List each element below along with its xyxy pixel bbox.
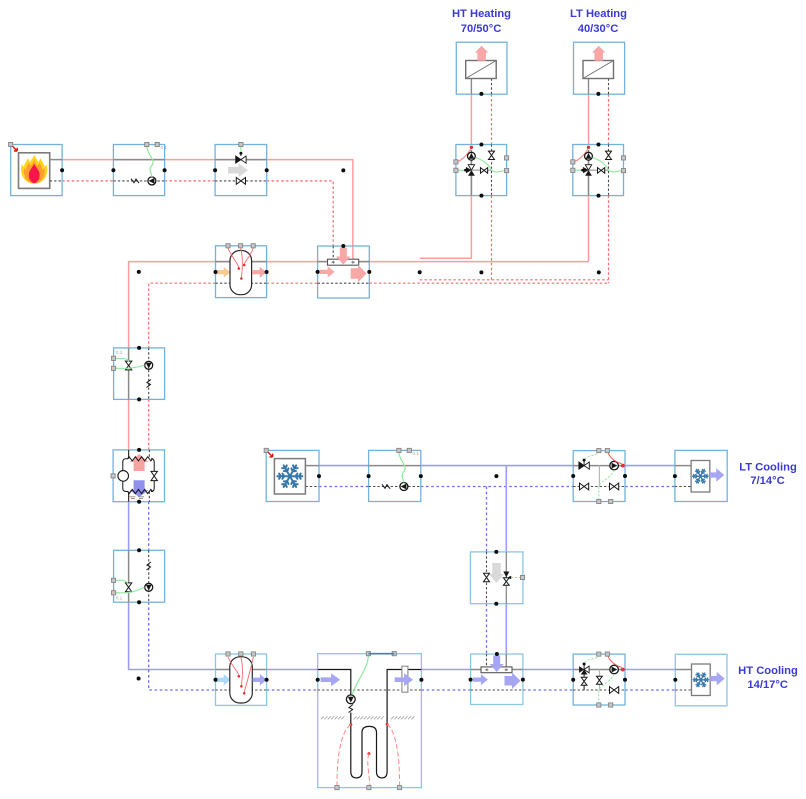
pump P4 (chiller circuit) (400, 483, 408, 491)
wire bottom return bus y=690 b (421, 689, 470, 691)
buffer tank 1 vessel (230, 251, 252, 295)
wire bottom return bus y=690 d (625, 689, 675, 691)
node HT branch tee (479, 270, 483, 274)
node buffer1 left (214, 270, 218, 274)
LT radiator heat arrow (592, 46, 606, 61)
wire boiler return dashed red seg3 (267, 181, 334, 246)
node HT load left (673, 678, 677, 682)
node bottom-left corner (137, 677, 141, 681)
wire bottom supply bus y=669.5 (267, 669, 318, 671)
wire cooling tie return lower (486, 604, 488, 654)
control terminals boiler pump (145, 142, 149, 146)
cooling tie block frame (470, 552, 523, 604)
chiller block frame (266, 450, 319, 501)
wire LT cooling return y=486.5 (dashed) (319, 486, 369, 488)
borefield temperature probes (349, 723, 352, 726)
svg-text:0.1: 0.1 (116, 350, 123, 355)
HT cooling load frame (675, 654, 727, 706)
HP cold-side terminals (112, 578, 116, 582)
HT heating circuit block frame (456, 145, 507, 196)
chiller circuit flow resistance (382, 484, 390, 488)
wire LT supply riser x=588.5 (588, 196, 590, 262)
HT radiator block frame (456, 42, 507, 94)
HP hot-side green leads (115, 358, 129, 362)
LT radiator emitter (583, 61, 614, 79)
node HT heating circuit bottom (479, 194, 483, 198)
manifold small outflow arrow (320, 266, 335, 277)
cold manifold inlet arrow (490, 656, 504, 673)
boiler return stub dashed (50, 180, 62, 182)
boiler block frame (11, 145, 62, 196)
wire return bus y=283.2 seg2 (267, 282, 318, 284)
boiler selection marker (9, 142, 13, 146)
boiler pump block frame (113, 145, 164, 196)
wire HP cold supply corner (129, 602, 216, 669)
LT cooling valve block pump (610, 461, 619, 470)
heat pump condenser arrow (130, 454, 149, 471)
svg-text:LT Cooling: LT Cooling (739, 462, 797, 474)
cold manifold block frame (471, 654, 523, 705)
cold manifold big outflow arrow (505, 673, 521, 690)
node heat pump top (137, 448, 141, 452)
node LT load left (673, 474, 677, 478)
node LT radiator bottom (596, 92, 600, 96)
node LT cooling valve block right (623, 474, 627, 478)
HT cooling valve block mid connecting pipe (598, 670, 600, 691)
LT heating terminals (571, 160, 575, 164)
LT cooling load pipes (675, 465, 691, 467)
node supply-bus split (418, 270, 422, 274)
green control lead P4 (399, 452, 405, 483)
borefield inlet arrow (321, 673, 341, 686)
heat pump condenser coil (123, 457, 154, 472)
LT cooling valve block return balancing valve A (580, 483, 589, 490)
node boiler-main corner (341, 168, 345, 172)
LT cooling valve block terminals (597, 449, 601, 453)
LT cooling valve block green control curves (585, 451, 599, 459)
wire boiler return dashed red seg1 (62, 180, 113, 182)
node cooling tie top (494, 550, 498, 554)
manifold riser stubs (332, 246, 334, 260)
boiler valve block frame (215, 145, 267, 196)
svg-text:HT Cooling: HT Cooling (738, 665, 798, 677)
node chiller pump right (419, 474, 423, 478)
cold manifold riser stubs (486, 654, 488, 667)
svg-text:7/14°C: 7/14°C (750, 475, 784, 487)
borefield block frame (318, 654, 422, 788)
wire HT radiator supply x=471.4 (470, 94, 472, 144)
LT heating valve actuator dot (581, 169, 584, 172)
chiller pipe stubs (305, 465, 319, 467)
LT cooling valve block return balancing valve B (610, 483, 619, 490)
HP hot-side terminals (112, 356, 116, 360)
LT cooling load arrow (710, 468, 725, 482)
wire return bus y=283.2 seg1 (149, 283, 216, 348)
LT radiator pipes (588, 79, 590, 95)
HT cooling valve block valve branch pipe (583, 675, 585, 691)
svg-text:14/17°C: 14/17°C (747, 679, 788, 691)
chiller housing (274, 459, 305, 494)
wire LT return dropper x=608.5 (608, 196, 610, 284)
buffer tank 1 outlet arrow (252, 267, 266, 278)
HT heating return balancing valve (489, 151, 495, 159)
borefield terminals (366, 652, 370, 656)
control valve V1 (236, 156, 241, 163)
HT cooling valve block three-way valve (579, 666, 584, 673)
node cooling tie junction (494, 474, 498, 478)
HP cold-side pipes (128, 550, 130, 602)
node borefield right (419, 678, 423, 682)
LT cooling valve block frame (573, 451, 625, 502)
boiler inner housing (19, 153, 50, 189)
LT heating three-way valve (585, 165, 591, 170)
LT cooling load housing (691, 461, 710, 493)
cold manifold header vessel (481, 667, 512, 673)
node bus corner left (137, 270, 141, 274)
node LT heating circuit top (597, 143, 601, 147)
node LT branch tee (597, 270, 601, 274)
HT heating valve actuator dot (464, 169, 467, 172)
LT heating supply sensor curve (574, 149, 588, 163)
node HT cooling valve block right (623, 678, 627, 682)
node HP cold-side top (137, 548, 141, 552)
node heat pump bottom (137, 500, 141, 504)
wire bottom supply bus y=669.5 d (625, 669, 675, 671)
gray flow arrow (228, 163, 248, 177)
node HT radiator bottom (479, 92, 483, 96)
buffer tank 1 pipes (216, 261, 267, 263)
cold manifold small outflow arrow (473, 674, 488, 685)
node manifold left (316, 270, 320, 274)
wire bottom supply bus y=669.5 c (523, 669, 573, 671)
svg-text:0.1: 0.1 (161, 145, 168, 150)
HT radiator heat arrow (475, 46, 489, 61)
LT cooling valve block check valve (579, 462, 584, 469)
HT heating bypass pipe (471, 169, 491, 171)
HT cooling valve block pump sensor curve (607, 654, 621, 667)
LT heating circuit pump (585, 152, 593, 160)
HT cooling load snowflake (693, 673, 709, 687)
borefield outlet arrow (395, 673, 414, 686)
borefield return pipe (through) (318, 689, 422, 691)
manifold big outflow arrow (351, 265, 367, 283)
node buffer1 right (265, 270, 269, 274)
HT heating bypass balancing valve (480, 168, 487, 174)
wire boiler return dashed red seg2 (165, 180, 216, 182)
node cold manifold top (495, 652, 499, 656)
node cooling tie bottom (494, 602, 498, 606)
boiler flame icon (21, 154, 47, 184)
node LT heating circuit bottom (597, 194, 601, 198)
node manifold top (341, 244, 345, 248)
wire supply bus y=261.6 + left column corner (129, 262, 589, 348)
cooling tie gray arrow (489, 563, 504, 583)
HT cooling load pipes (675, 669, 691, 671)
node HT cooling valve block left (571, 678, 575, 682)
wire supply branch track y=258.2 (420, 257, 472, 259)
manifold supply pipe (318, 261, 370, 263)
HT heating circuit pipes (470, 150, 472, 196)
wire LT cooling return y=486.5 c (625, 486, 675, 488)
node HP hot-side bottom (137, 397, 141, 401)
cooling tie green lead (511, 577, 521, 579)
svg-text:0.1: 0.1 (413, 451, 420, 456)
cooling tie pipes (486, 552, 488, 604)
pump P5 (borefield) (346, 695, 355, 704)
node cold manifold left (469, 678, 473, 682)
HT radiator pipes (470, 79, 472, 95)
node chiller pump left (367, 474, 371, 478)
pump P2 (HP hot side) (145, 361, 153, 369)
LT cooling valve block pump sensor curve (607, 451, 621, 464)
HP cold-side block frame (114, 550, 165, 602)
svg-text:LT Heating: LT Heating (570, 8, 627, 20)
chiller pump block frame (369, 450, 421, 501)
wire HT supply riser x=471.4 (470, 196, 472, 259)
node borefield left (316, 678, 320, 682)
HP hot-side block frame (114, 348, 165, 400)
buffer tank 2 vessel (230, 657, 253, 703)
wire HT return dropper x=491.5 (491, 196, 493, 280)
buffer tank 2 sensor curves (228, 657, 239, 675)
node manifold right (367, 270, 371, 274)
HT cooling valve block branch balancing valve (581, 677, 587, 685)
chiller pump terminals (397, 448, 401, 452)
HP cold-side shutoff valve (125, 583, 131, 592)
LT cooling load snowflake (693, 469, 709, 483)
cooling tie balancing valve (484, 573, 490, 581)
LT cooling valve block mid connecting pipe (598, 466, 600, 487)
HT cooling valve block terminals (597, 652, 601, 656)
heat pump compressor (118, 471, 129, 482)
svg-text:40/30°C: 40/30°C (578, 23, 619, 35)
buffer tank 1 block frame (216, 246, 267, 298)
HT heating green control curves (456, 169, 464, 171)
HP hot-side shutoff valve (125, 361, 131, 370)
wire LT cooling supply y=465.6 c (625, 465, 675, 467)
pump P1 (boiler circuit) (148, 177, 156, 185)
buffer tank 2 terminals (226, 652, 230, 656)
manifold header vessel (328, 259, 359, 265)
LT heating bypass pipe (589, 169, 609, 171)
buffer tank 2 block frame (216, 654, 267, 705)
wire bottom return bus y=690 c (523, 689, 573, 691)
wire return branch track y=279.8 (dashed) (420, 279, 609, 281)
HT cooling valve block pipes (573, 669, 625, 671)
wire LT cooling supply y=465.6 (319, 465, 369, 467)
HT cooling valve block green control curves (585, 654, 599, 662)
LT heating return balancing valve (606, 151, 612, 159)
borefield flow resistance (349, 705, 353, 713)
HT cooling valve block return balancing valve (610, 687, 619, 694)
svg-text:HT Heating: HT Heating (452, 8, 511, 20)
node chiller outlet (317, 474, 321, 478)
heat pump port stubs (128, 450, 130, 459)
boiler pump block pipes (113, 159, 164, 161)
LT heating bypass balancing valve (598, 168, 605, 174)
boiler valve block pipes (215, 159, 267, 161)
balancing valve on return (236, 178, 245, 185)
node valve block left (213, 168, 217, 172)
node valve block right (265, 168, 269, 172)
cold manifold return pipe (471, 689, 523, 691)
node pump block left (111, 168, 115, 172)
wire return bus y=283.2 seg3 (369, 282, 608, 284)
buffer tank 1 terminals (226, 244, 230, 248)
wire boiler supply solid red (62, 160, 353, 260)
HT heating supply sensor curve (457, 149, 471, 163)
wire cooling tie return upper (486, 487, 488, 552)
buffer tank 1 inlet arrow (216, 267, 230, 278)
borefield ground hatch (321, 716, 344, 719)
boiler outlet stub solid (50, 159, 62, 161)
manifold block frame (318, 246, 370, 298)
node buffer2 left (214, 678, 218, 682)
HT heating circuit pump (468, 152, 476, 160)
node pump block right (163, 168, 167, 172)
cold manifold supply pipe (471, 669, 523, 671)
LT heating circuit block frame (573, 145, 624, 196)
heat pump expansion valve (151, 471, 157, 480)
heat pump block frame (113, 450, 164, 502)
wire left return column lower (148, 399, 150, 450)
HP cold-side flow resistance (147, 562, 151, 570)
borefield supply pipe (318, 670, 351, 695)
green control stub (240, 146, 242, 152)
borefield boundary box (402, 666, 408, 692)
wire HP cold supply x=128.6 blue upper (128, 502, 130, 551)
wire HP cold return corner (149, 602, 216, 690)
buffer tank 2 pipes (216, 669, 267, 671)
node boiler outlet (60, 168, 64, 172)
wire LT radiator return x=608.5 (608, 94, 610, 144)
chiller pump block pipes (369, 465, 421, 467)
wire cooling tie supply lower (505, 604, 507, 654)
flow resistance symbol (131, 179, 139, 183)
wire cooling tie supply upper (505, 466, 507, 552)
wire LT radiator supply x=588.5 (588, 94, 590, 144)
heat pump evaporator arrow (130, 480, 149, 497)
HP hot-side pipes (128, 348, 130, 400)
heat pump ground dashes (130, 497, 145, 499)
node cold manifold right (521, 678, 525, 682)
HP hot-side flow resistance (147, 380, 151, 388)
HT cooling load arrow (710, 672, 725, 686)
HT cooling valve block mid balancing valve (597, 676, 603, 684)
HT cooling valve block frame (573, 654, 625, 705)
HT cooling valve block pump (610, 665, 619, 674)
LT radiator block frame (574, 42, 625, 94)
HT radiator emitter (466, 61, 497, 79)
HT heating terminals (454, 160, 458, 164)
manifold return pipe (318, 282, 370, 284)
LT cooling load frame (675, 450, 727, 501)
wire LT cooling return y=486.5 b (421, 486, 573, 488)
LT cooling valve block pipes (573, 465, 625, 467)
wire left supply column lower (128, 399, 130, 450)
borefield green lead (353, 655, 369, 694)
chiller selection marker (264, 448, 268, 452)
svg-text:70/50°C: 70/50°C (461, 23, 502, 35)
LT heating green control curves (573, 169, 581, 171)
svg-text:0.1: 0.1 (116, 596, 123, 601)
green control lead to pump P1 (147, 146, 153, 177)
wire HT radiator return x=491.5 (491, 94, 493, 144)
wire bottom supply bus y=669.5 b (421, 669, 470, 671)
HP cold-side green leads (115, 580, 129, 584)
borefield U-tube (351, 670, 422, 778)
wire bottom return bus y=690 (dashed) (267, 689, 318, 691)
LT heating circuit pipes (588, 150, 590, 196)
HT heating three-way valve (468, 165, 474, 170)
buffer tank 1 sensor curves (228, 248, 239, 267)
node HP hot-side top (137, 346, 141, 350)
node HT heating circuit top (479, 143, 483, 147)
heat pump evaporator coil (123, 481, 154, 494)
HT cooling load housing (692, 664, 711, 696)
node buffer2 right (265, 678, 269, 682)
manifold inlet down arrow (336, 248, 351, 265)
pump P3 (HP cold side) (145, 583, 153, 591)
cooling tie check valve (503, 572, 509, 578)
node LT cooling valve block left (571, 474, 575, 478)
chiller snowflake (277, 465, 302, 487)
buffer tank 2 inlet arrow (216, 674, 231, 686)
node HP cold-side bottom (137, 600, 141, 604)
buffer tank 2 outlet arrow (253, 674, 267, 686)
wire HP cold return blue dashed upper (148, 502, 150, 551)
heat pump terminal (111, 474, 115, 478)
wire LT cooling supply y=465.6 b (421, 465, 573, 467)
